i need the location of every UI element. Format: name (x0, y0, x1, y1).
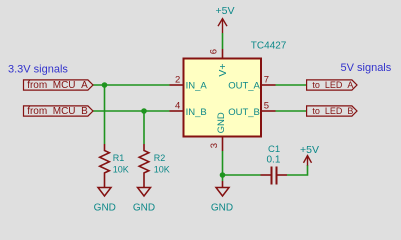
wire junction to gnd stem green part (222, 175, 224, 181)
svg-text:3: 3 (209, 143, 220, 148)
pin 5 OUT_B stub (262, 110, 276, 112)
svg-text:TC4427: TC4427 (251, 40, 287, 51)
svg-text:R2: R2 (154, 153, 166, 163)
global label to_LED_B (307, 106, 357, 116)
global label from_MCU_A (24, 80, 94, 90)
svg-text:R1: R1 (113, 153, 125, 163)
svg-text:IN_A: IN_A (186, 81, 208, 92)
svg-text:GND: GND (94, 202, 116, 213)
wire pin7 to to_LED_A (276, 84, 307, 86)
svg-text:V+: V+ (217, 63, 229, 76)
svg-text:from_MCU_B: from_MCU_B (27, 106, 88, 117)
op-amp U1 body (TC4427 driver) (184, 59, 262, 137)
global label from_MCU_B (24, 106, 94, 116)
ground under chip, red stem (222, 181, 224, 188)
junction at pin3 rail (220, 172, 226, 178)
ground under R2 (138, 188, 151, 197)
svg-text:+5V: +5V (300, 144, 319, 156)
capacitor C1 (261, 167, 288, 185)
svg-text:to_LED_A: to_LED_A (312, 80, 353, 90)
wire junction B down to R2 (143, 111, 145, 144)
svg-text:4: 4 (175, 101, 180, 112)
svg-text:C1: C1 (268, 144, 280, 155)
pin 2 IN_A stub (170, 84, 183, 86)
svg-text:GND: GND (133, 202, 155, 213)
pin 3 GND stub (222, 138, 224, 152)
svg-text:5: 5 (264, 101, 269, 112)
junction B (141, 108, 147, 114)
wire +5V to pin6 (222, 33, 224, 49)
svg-text:7: 7 (264, 74, 269, 85)
junction A (102, 82, 108, 88)
svg-text:OUT_B: OUT_B (228, 107, 260, 118)
wire junction to C1 left (223, 174, 261, 176)
wire pin3 down to junction (222, 151, 224, 175)
wire C1 right to +5V corner (287, 165, 308, 175)
wire from_MCU_A to pin2 (93, 84, 170, 86)
svg-text:OUT_A: OUT_A (228, 81, 260, 92)
pin 7 OUT_A stub (262, 84, 276, 86)
svg-text:IN_B: IN_B (186, 107, 207, 118)
wire junction A down to R1 (104, 85, 106, 144)
ground under chip triangle (216, 188, 229, 197)
pin 6 V+ stub (222, 49, 224, 58)
svg-text:GND: GND (211, 202, 233, 213)
ground under R1 (98, 188, 111, 197)
svg-text:10K: 10K (154, 164, 170, 174)
svg-text:6: 6 (209, 49, 220, 54)
svg-text:2: 2 (175, 74, 180, 85)
wire pin5 to to_LED_B (276, 110, 307, 112)
svg-text:10K: 10K (113, 164, 129, 174)
resistor R1 (100, 144, 110, 188)
svg-text:+5V: +5V (216, 5, 235, 17)
svg-text:5V signals: 5V signals (341, 62, 392, 74)
svg-text:from_MCU_A: from_MCU_A (27, 80, 88, 91)
global label to_LED_A (307, 80, 357, 90)
resistor R2 (139, 144, 149, 188)
svg-text:0.1: 0.1 (267, 155, 281, 166)
svg-text:GND: GND (216, 112, 227, 133)
wire from_MCU_B to pin4 (93, 110, 170, 112)
svg-text:3.3V signals: 3.3V signals (8, 63, 68, 75)
svg-text:to_LED_B: to_LED_B (312, 106, 353, 116)
power +5V top symbol (218, 19, 227, 33)
power +5V right symbol (304, 156, 312, 166)
pin 4 IN_B stub (170, 110, 183, 112)
